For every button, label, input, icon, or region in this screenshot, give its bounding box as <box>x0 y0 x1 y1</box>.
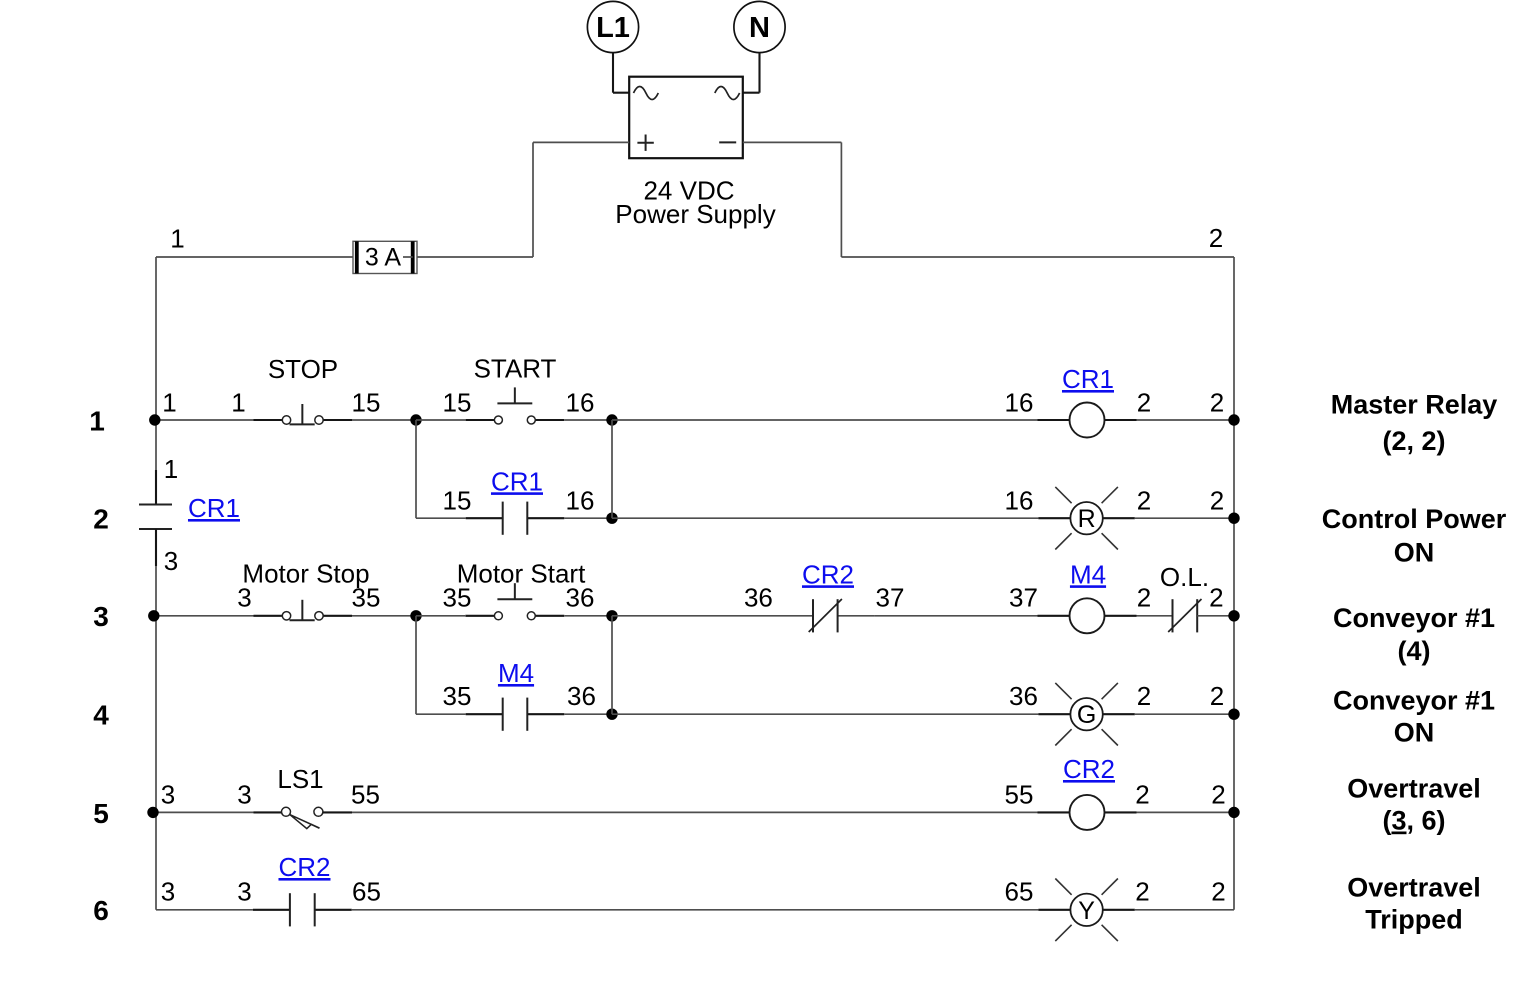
svg-text:2: 2 <box>1209 223 1223 253</box>
node 15 label rung 1 before START <box>443 387 472 417</box>
right rail <box>1233 257 1235 910</box>
contact CR2 (NO) rung 6 <box>253 893 352 926</box>
svg-text:O.L.: O.L. <box>1160 562 1209 592</box>
wire rung 3 left <box>156 615 254 617</box>
left rail top segment <box>155 257 157 505</box>
wire rung 1 junction B to coil CR1 <box>612 419 1038 421</box>
svg-text:3: 3 <box>237 779 251 809</box>
node 3 label rung 6 at rail <box>161 877 175 907</box>
rung 1 description Master Relay <box>1331 390 1498 456</box>
svg-text:1: 1 <box>231 387 245 417</box>
svg-text:1: 1 <box>89 405 105 436</box>
node 2 label rung 3 at right rail <box>1209 583 1223 613</box>
svg-text:65: 65 <box>352 877 381 907</box>
node 1 label top <box>170 223 184 253</box>
node 15 label rung 2 <box>443 485 472 515</box>
wire branch down junction B rung 1 to rung 2 <box>611 420 613 518</box>
junction rung 2 right rail <box>1228 513 1239 524</box>
svg-text:CR1: CR1 <box>188 493 240 523</box>
svg-text:G: G <box>1077 701 1096 729</box>
LS1 label <box>277 764 323 794</box>
svg-text:L1: L1 <box>596 12 630 44</box>
fuse F1 3 A <box>353 241 418 273</box>
svg-text:2: 2 <box>1211 877 1225 907</box>
contact CR2 rung 6 label <box>278 852 330 882</box>
svg-text:ON: ON <box>1394 538 1435 568</box>
node 2 label rung 3 before OL <box>1137 583 1151 613</box>
pushbutton START (NO) <box>465 387 564 424</box>
contact CR1 in left rail (normally open) <box>139 505 172 567</box>
svg-text:Conveyor #1: Conveyor #1 <box>1333 603 1495 633</box>
wire contact M4 to junction rung 4 <box>564 713 612 715</box>
pilot lamp R <box>1038 487 1134 550</box>
coil M4 label <box>1070 559 1106 589</box>
svg-text:37: 37 <box>1009 583 1038 613</box>
svg-text:3: 3 <box>237 877 251 907</box>
svg-text:2: 2 <box>1137 681 1151 711</box>
node 55 label rung 5 before coil <box>1005 779 1034 809</box>
svg-text:CR2: CR2 <box>802 559 854 589</box>
wire STOP to junction A <box>352 419 416 421</box>
svg-text:55: 55 <box>351 779 380 809</box>
svg-text:16: 16 <box>566 485 595 515</box>
node 2 label rung 2 after lamp <box>1137 485 1151 515</box>
wire contact CR1 to junction rung 2 <box>564 517 612 519</box>
node 55 label rung 5 after LS1 <box>351 779 380 809</box>
left rail node 1 label <box>164 454 178 484</box>
svg-text:2: 2 <box>1135 779 1149 809</box>
minus terminal label <box>719 141 736 143</box>
junction rung 1 after START <box>606 414 617 425</box>
limit switch LS1 (NO) <box>254 807 353 828</box>
pushbutton STOP (NC) <box>254 404 353 424</box>
wire junction B3 to contact CR2 <box>612 615 776 617</box>
svg-text:(3, 6): (3, 6) <box>1382 806 1445 836</box>
node 3 label rung 5 at rail <box>161 779 175 809</box>
wire lamp G to right rail <box>1135 713 1234 715</box>
node 16 label rung 1 after START <box>566 387 595 417</box>
svg-text:16: 16 <box>566 387 595 417</box>
left rail lower segment <box>155 566 157 910</box>
node 36 label rung 4 after contact <box>567 681 596 711</box>
node 3 label rung 3 before Motor Stop <box>237 583 251 613</box>
contact CR1 seal-in (NO) <box>466 502 565 535</box>
svg-text:35: 35 <box>352 583 381 613</box>
svg-text:M4: M4 <box>1070 559 1106 589</box>
node 16 label rung 1 before coil <box>1005 387 1034 417</box>
coil CR2 label <box>1063 754 1115 784</box>
junction rung 5 left rail <box>147 807 158 818</box>
START label <box>474 354 557 384</box>
left rail CR1 contact label <box>188 493 240 523</box>
terminal N <box>734 1 785 52</box>
svg-text:ON: ON <box>1394 718 1435 748</box>
wire Motor Start to junction B3 <box>565 615 613 617</box>
svg-text:3: 3 <box>161 779 175 809</box>
svg-text:2: 2 <box>1135 877 1149 907</box>
svg-text:LS1: LS1 <box>277 764 323 794</box>
pilot lamp Y <box>1038 879 1134 942</box>
svg-text:STOP: STOP <box>268 354 338 384</box>
rung number 4 <box>93 700 109 731</box>
rung number 1 <box>89 405 105 436</box>
rung number 5 <box>93 798 109 829</box>
wire coil CR2 to right rail <box>1137 811 1235 813</box>
node 36 label rung 4 before lamp <box>1009 681 1038 711</box>
wire rung 5 left <box>156 811 254 813</box>
power supply PS1 box <box>629 77 743 159</box>
junction rung 1 right rail <box>1228 414 1239 425</box>
svg-text:35: 35 <box>443 681 472 711</box>
svg-text:2: 2 <box>1209 583 1223 613</box>
wire rung 2 to lamp R <box>612 517 1038 519</box>
svg-text:Overtravel: Overtravel <box>1347 873 1481 903</box>
wire top bus right node 2 <box>841 256 1234 258</box>
node 36 label rung 3 after Motor Start <box>566 583 595 613</box>
wire rung 6 left <box>156 909 253 911</box>
node 2 label rung 1 after coil <box>1137 387 1151 417</box>
rung 6 description Overtravel Tripped <box>1347 873 1481 935</box>
svg-text:START: START <box>474 354 557 384</box>
rung number 6 <box>93 895 109 926</box>
pilot lamp G <box>1038 683 1134 746</box>
svg-text:3: 3 <box>164 546 178 576</box>
junction rung 3 left rail <box>148 610 159 621</box>
AC input symbol left <box>634 87 659 100</box>
wire LS1 to coil CR2 <box>352 811 1038 813</box>
svg-text:CR2: CR2 <box>278 852 330 882</box>
coil CR2 <box>1038 795 1137 830</box>
wire junction A3 to Motor Start <box>416 615 465 617</box>
wire rung 1 left <box>156 419 254 421</box>
node 2 label top <box>1209 223 1223 253</box>
left rail node 3 label <box>164 546 178 576</box>
pushbutton Motor Start (NO) <box>465 583 564 620</box>
node 2 label rung 5 at right rail <box>1211 779 1225 809</box>
node 2 label rung 1 at right rail <box>1210 387 1224 417</box>
svg-text:CR2: CR2 <box>1063 754 1115 784</box>
node 2 label rung 6 after lamp <box>1135 877 1149 907</box>
svg-text:5: 5 <box>93 798 109 829</box>
svg-text:65: 65 <box>1005 877 1034 907</box>
svg-text:Control Power: Control Power <box>1322 504 1507 534</box>
svg-text:(2, 2): (2, 2) <box>1382 426 1445 456</box>
svg-text:N: N <box>749 12 770 44</box>
svg-text:1: 1 <box>162 387 176 417</box>
rung 4 description Conveyor #1 ON <box>1333 686 1495 748</box>
wire coil CR1 to right rail <box>1137 419 1235 421</box>
junction rung 3 after Motor Start <box>606 610 617 621</box>
svg-text:15: 15 <box>443 387 472 417</box>
svg-text:2: 2 <box>93 504 109 535</box>
svg-text:CR1: CR1 <box>1062 364 1114 394</box>
STOP label <box>268 354 338 384</box>
junction rung 1 after STOP <box>410 414 421 425</box>
node 2 label rung 5 after coil <box>1135 779 1149 809</box>
overload contact O.L. (NC) <box>1168 599 1234 632</box>
junction rung 3 after Motor Stop <box>410 610 421 621</box>
svg-text:2: 2 <box>1210 681 1224 711</box>
svg-text:2: 2 <box>1210 485 1224 515</box>
junction rung 1 left rail <box>149 414 160 425</box>
svg-text:1: 1 <box>164 454 178 484</box>
svg-text:16: 16 <box>1005 485 1034 515</box>
wire N to power supply <box>743 53 760 93</box>
svg-text:R: R <box>1078 505 1096 533</box>
coil CR1 <box>1038 403 1137 438</box>
svg-text:15: 15 <box>443 485 472 515</box>
node 65 label rung 6 before lamp <box>1005 877 1034 907</box>
wire coil M4 to OL contact <box>1137 615 1173 617</box>
node 37 label rung 3 after CR2 contact <box>876 583 905 613</box>
AC input symbol right <box>715 87 740 100</box>
wire CR2 contact to lamp Y <box>352 909 1039 911</box>
junction rung 4 right rail <box>1228 709 1239 720</box>
wire branch down from junction A to rung 2 <box>416 420 466 518</box>
svg-text:2: 2 <box>1210 387 1224 417</box>
svg-text:Motor Stop: Motor Stop <box>242 559 369 589</box>
wire rung 4 to lamp G <box>612 713 1038 715</box>
wire START to junction B <box>565 419 613 421</box>
svg-text:16: 16 <box>1005 387 1034 417</box>
svg-text:2: 2 <box>1211 779 1225 809</box>
wire branch down from junction A3 to rung 4 <box>416 616 466 714</box>
svg-text:36: 36 <box>567 681 596 711</box>
node 35 label rung 3 after Motor Stop <box>352 583 381 613</box>
plus terminal label <box>637 135 653 151</box>
junction rung 2 at branch B <box>606 513 617 524</box>
node 35 label rung 3 before Motor Start <box>443 583 472 613</box>
svg-text:2: 2 <box>1137 583 1151 613</box>
O.L. label <box>1160 562 1209 592</box>
svg-text:(4): (4) <box>1398 636 1431 666</box>
node 3 label rung 6 before CR2 contact <box>237 877 251 907</box>
node 2 label rung 6 at right rail <box>1211 877 1225 907</box>
svg-text:2: 2 <box>1137 485 1151 515</box>
svg-text:36: 36 <box>1009 681 1038 711</box>
svg-text:Tripped: Tripped <box>1365 905 1463 935</box>
wire lamp R to right rail <box>1135 517 1234 519</box>
svg-text:1: 1 <box>170 223 184 253</box>
wire branch down junction B3 to rung 4 <box>611 616 613 714</box>
wire top bus left node 1 <box>418 256 533 258</box>
coil M4 <box>1038 598 1137 633</box>
svg-text:Y: Y <box>1078 897 1095 925</box>
contact CR2 (NC) <box>776 599 875 632</box>
svg-text:4: 4 <box>93 700 109 731</box>
svg-text:3: 3 <box>161 877 175 907</box>
node 2 label rung 4 after lamp <box>1137 681 1151 711</box>
rung 3 description Conveyor #1 (4) <box>1333 603 1495 666</box>
wire fuse to left rail <box>156 256 353 258</box>
contact M4 seal-in (NO) <box>466 698 565 731</box>
svg-text:Conveyor #1: Conveyor #1 <box>1333 686 1495 716</box>
node 2 label rung 2 at right rail <box>1210 485 1224 515</box>
wire lamp Y to right rail <box>1135 909 1234 911</box>
Motor Stop label <box>242 559 369 589</box>
svg-text:Power Supply: Power Supply <box>615 199 775 229</box>
svg-text:CR1: CR1 <box>491 466 543 496</box>
node 65 label rung 6 after contact <box>352 877 381 907</box>
svg-text:Overtravel: Overtravel <box>1347 774 1481 804</box>
wire Motor Stop to junction A3 <box>352 615 416 617</box>
node 37 label rung 3 before coil M4 <box>1009 583 1038 613</box>
wire junction A to START <box>416 419 465 421</box>
wire positive output <box>533 142 629 257</box>
junction rung 5 right rail <box>1228 807 1239 818</box>
svg-text:55: 55 <box>1005 779 1034 809</box>
svg-text:36: 36 <box>566 583 595 613</box>
rung number 3 <box>93 601 109 632</box>
rung number 2 <box>93 504 109 535</box>
svg-text:3 A: 3 A <box>365 243 401 271</box>
node 35 label rung 4 <box>443 681 472 711</box>
Motor Start label <box>457 559 586 589</box>
junction rung 4 at branch B <box>606 709 617 720</box>
wire L1 to power supply <box>613 53 629 93</box>
svg-text:36: 36 <box>744 583 773 613</box>
svg-text:Master Relay: Master Relay <box>1331 390 1498 420</box>
rung 2 description Control Power ON <box>1322 504 1507 568</box>
svg-text:M4: M4 <box>498 658 534 688</box>
contact CR2 label <box>802 559 854 589</box>
node 16 label rung 2 before lamp <box>1005 485 1034 515</box>
node 16 label rung 2 after contact <box>566 485 595 515</box>
coil CR1 label <box>1062 364 1114 394</box>
svg-text:6: 6 <box>93 895 109 926</box>
junction rung 3 right rail <box>1228 610 1239 621</box>
pushbutton Motor Stop (NC) <box>254 600 353 620</box>
svg-text:3: 3 <box>93 601 109 632</box>
wire CR2 contact to coil M4 <box>875 615 1038 617</box>
node 2 label rung 4 at right rail <box>1210 681 1224 711</box>
node 1 label rung 1 before STOP <box>231 387 245 417</box>
svg-text:2: 2 <box>1137 387 1151 417</box>
svg-text:15: 15 <box>352 387 381 417</box>
node 36 label rung 3 before CR2 contact <box>744 583 773 613</box>
terminal L1 <box>587 1 638 52</box>
node 3 label rung 5 before LS1 <box>237 779 251 809</box>
rung 5 description Overtravel (3, 6) <box>1347 774 1481 836</box>
power supply label 24 VDC Power Supply <box>615 175 775 229</box>
svg-text:37: 37 <box>876 583 905 613</box>
wire negative output <box>743 142 842 257</box>
node 1 label rung 1 at rail <box>162 387 176 417</box>
contact CR1 seal-in label <box>491 466 543 496</box>
contact M4 seal-in label <box>498 658 534 688</box>
node 15 label rung 1 after STOP <box>352 387 381 417</box>
